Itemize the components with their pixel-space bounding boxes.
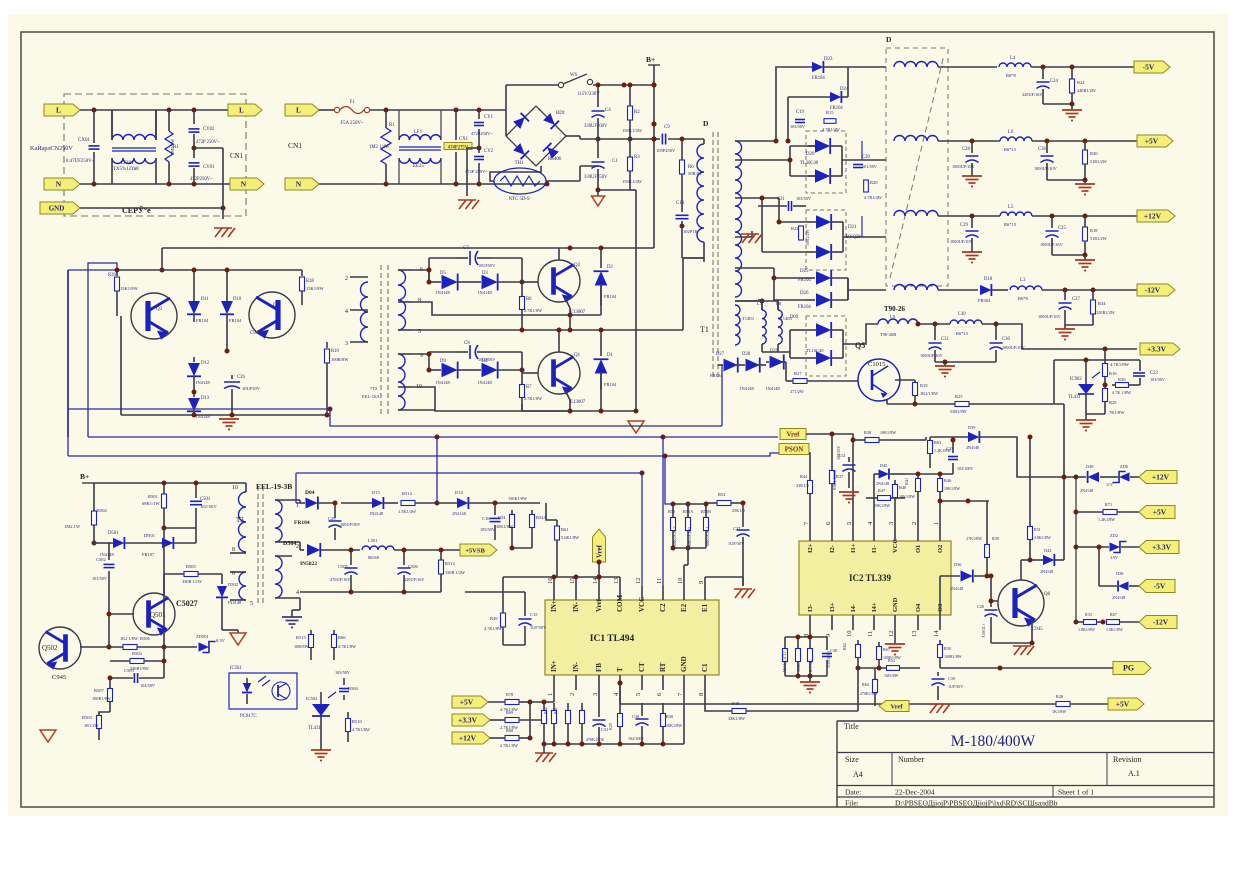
- svg-text:LF101: LF101: [121, 161, 134, 166]
- -12V rail wire: [848, 289, 886, 291]
- capacitor C29 sb: [334, 503, 336, 518]
- svg-text:LF1: LF1: [414, 130, 423, 135]
- svg-text:R44: R44: [800, 474, 808, 479]
- svg-text:1UF/50V: 1UF/50V: [530, 625, 547, 630]
- IC1 pin 6 RT: [662, 675, 664, 690]
- svg-text:105P250V: 105P250V: [656, 148, 676, 153]
- IC1 pin 5 CT: [641, 675, 643, 690]
- svg-text:ZD501: ZD501: [196, 634, 209, 639]
- svg-text:1000UF/10V: 1000UF/10V: [950, 239, 974, 244]
- svg-text:D24: D24: [840, 87, 849, 92]
- wire Q2 collector stub: [558, 248, 560, 260]
- thermistor TH1: [490, 166, 541, 181]
- svg-text:1000UF/16V: 1000UF/16V: [1038, 314, 1062, 319]
- svg-text:330UF250V: 330UF250V: [584, 175, 608, 180]
- svg-text:C29: C29: [328, 516, 336, 521]
- ground C14: [839, 491, 859, 493]
- svg-text:R67: R67: [1110, 612, 1117, 617]
- svg-text:R55: R55: [668, 509, 675, 514]
- svg-text:L9: L9: [890, 314, 896, 319]
- svg-text:103/50V: 103/50V: [790, 124, 806, 129]
- svg-text:I1-: I1-: [871, 545, 878, 553]
- svg-text:O2: O2: [937, 545, 944, 553]
- svg-text:271/2W: 271/2W: [790, 389, 805, 394]
- resistor R66: [333, 630, 335, 634]
- svg-text:R55A: R55A: [683, 509, 694, 514]
- resistor R44: [809, 460, 811, 480]
- svg-text:CY2: CY2: [484, 149, 494, 154]
- svg-text:150K1/4W: 150K1/4W: [622, 179, 643, 184]
- shunt reg IC502 TL431: [312, 704, 330, 716]
- svg-text:C1: C1: [701, 663, 709, 672]
- svg-text:220UF/16V: 220UF/16V: [1022, 92, 1043, 97]
- resistor R41: [917, 474, 919, 478]
- svg-text:IC501: IC501: [230, 666, 242, 671]
- ground D502 tri: [221, 610, 223, 630]
- svg-text:CY1: CY1: [484, 115, 494, 120]
- wire I1- riser row: [905, 473, 953, 475]
- wire D39 to sense column: [1000, 437, 1076, 477]
- svg-text:R69: R69: [506, 710, 513, 715]
- wire Q6 emitter ground: [1031, 620, 1033, 643]
- svg-text:R54A: R54A: [536, 515, 548, 520]
- diode D28 IN4148: [746, 358, 760, 373]
- diode D13 IN4148: [193, 392, 195, 397]
- svg-text:R57MC: R57MC: [808, 659, 813, 672]
- svg-text:472P 250V~: 472P 250V~: [196, 140, 220, 145]
- svg-text:10K1/8W: 10K1/8W: [880, 430, 896, 435]
- wire Q6 base: [991, 576, 998, 601]
- bus vertical to R514 node: [436, 437, 438, 503]
- svg-text:D23: D23: [824, 57, 833, 62]
- svg-text:C1: C1: [612, 159, 618, 164]
- resistor R30 +5V load: [1084, 141, 1086, 150]
- inductor L4: [999, 63, 1031, 67]
- svg-text:Vref: Vref: [787, 431, 801, 439]
- flag Vref net: [780, 429, 806, 440]
- ground drive rail: [121, 414, 327, 416]
- svg-text:-12V: -12V: [1145, 286, 1161, 295]
- IC2 pin 13 O4: [917, 615, 919, 630]
- svg-text:FR104: FR104: [798, 278, 811, 283]
- svg-text:C30: C30: [1002, 337, 1010, 342]
- IC1 pin 1 IN+: [553, 675, 555, 690]
- wire T pin4 long row: [620, 690, 1056, 704]
- svg-text:101/50V: 101/50V: [92, 576, 108, 581]
- svg-text:102P1K: 102P1K: [683, 229, 699, 234]
- diode D40: [1088, 471, 1099, 483]
- svg-text:R55B: R55B: [701, 509, 711, 514]
- wire T2 pin6: [412, 269, 429, 271]
- svg-text:100R1/8W: 100R1/8W: [92, 696, 112, 701]
- svg-text:11: 11: [656, 578, 663, 584]
- capacitor C37: [742, 503, 744, 527]
- svg-text:IN4148: IN4148: [478, 290, 492, 295]
- svg-text:100UF/50V: 100UF/50V: [340, 522, 361, 527]
- svg-text:R39: R39: [992, 536, 999, 541]
- resistor R510: [347, 712, 349, 718]
- svg-text:8: 8: [232, 547, 235, 553]
- wire D36 to O3: [939, 576, 941, 615]
- flag -12V out: [1137, 284, 1175, 296]
- svg-text:C29: C29: [960, 223, 968, 228]
- svg-text:C33: C33: [946, 446, 953, 451]
- TL431 sense network: [1104, 349, 1106, 360]
- T1 riser D25 D26: [774, 268, 806, 278]
- capacitor C24: [1042, 67, 1044, 79]
- svg-text:4.7K1/8W: 4.7K1/8W: [1110, 362, 1130, 367]
- svg-text:DN01: DN01: [144, 533, 155, 538]
- svg-text:FR104: FR104: [812, 76, 825, 81]
- svg-text:R68: R68: [506, 728, 513, 733]
- svg-text:R37: R37: [836, 474, 844, 479]
- svg-text:D14: D14: [455, 490, 463, 495]
- capacitor C506: [403, 550, 405, 565]
- wire Q6 collector: [1020, 560, 1022, 580]
- svg-text:A30/1L+: A30/1L+: [981, 623, 986, 638]
- svg-text:D27: D27: [716, 352, 725, 357]
- flag +12V sense: [1139, 471, 1177, 484]
- dual diode D21 BYQ28 (+12V): [806, 210, 846, 270]
- svg-text:102/1KV: 102/1KV: [200, 504, 218, 509]
- svg-text:IC902: IC902: [1070, 377, 1082, 382]
- svg-text:M-180/400W: M-180/400W: [951, 733, 1036, 750]
- -5V rail wire: [848, 66, 886, 68]
- svg-text:1M2.1W: 1M2.1W: [64, 524, 81, 529]
- ground C39: [929, 703, 947, 705]
- svg-text:1000UF/16V: 1000UF/16V: [1040, 242, 1064, 247]
- svg-text:1: 1: [547, 693, 554, 696]
- bus vertical VCC IC1: [641, 473, 643, 586]
- svg-text:100R/8W: 100R/8W: [331, 357, 349, 362]
- svg-text:R1: R1: [389, 123, 395, 128]
- resistor R68: [505, 736, 519, 741]
- svg-text:12: 12: [635, 578, 642, 585]
- diode D18 FR304: [980, 284, 991, 296]
- svg-text:33K1/8: 33K1/8: [796, 483, 809, 488]
- svg-text:FR304: FR304: [978, 298, 991, 303]
- node CY midpoint to GND: [192, 146, 197, 151]
- IC2 pin 8 I3-: [809, 615, 811, 630]
- svg-text:470K1/8W: 470K1/8W: [586, 737, 604, 742]
- wire R7 bottom to bottom rail: [521, 404, 523, 411]
- diode D14 2N4148: [457, 497, 468, 509]
- svg-text:IN-: IN-: [572, 601, 580, 612]
- svg-text:R66: R66: [338, 635, 346, 640]
- svg-text:865S8: 865S8: [368, 555, 379, 560]
- svg-text:R38: R38: [306, 279, 314, 284]
- flag +5V pg: [1108, 698, 1144, 710]
- wire Q1 base: [521, 370, 523, 373]
- resistor R69: [505, 718, 519, 723]
- svg-text:1R1/2W: 1R1/2W: [84, 723, 100, 728]
- resistor R20: [864, 180, 869, 192]
- svg-text:R41: R41: [904, 478, 909, 485]
- diode D502 vert: [221, 580, 223, 584]
- resistor R6 snubber: [681, 139, 683, 160]
- diode D504 IN5822: [299, 542, 301, 550]
- svg-text:100R1/8W: 100R1/8W: [944, 654, 962, 659]
- svg-text:103/50V: 103/50V: [335, 670, 351, 675]
- wire fb top: [530, 701, 554, 703]
- svg-text:27K1/8W: 27K1/8W: [966, 536, 982, 541]
- svg-text:T90-26: T90-26: [884, 305, 906, 313]
- svg-text:COM: COM: [616, 595, 624, 613]
- svg-text:R63: R63: [934, 440, 941, 445]
- IC2 pin 11 I4+: [873, 615, 875, 630]
- connector flag N (box out): [230, 178, 264, 190]
- transformer T1 core: [712, 132, 714, 378]
- svg-text:R515: R515: [296, 635, 307, 640]
- wire IC1 left loop: [465, 591, 525, 593]
- T1 riser D09 box: [790, 329, 806, 331]
- svg-text:2.7K1/8W: 2.7K1/8W: [524, 396, 543, 401]
- svg-text:C28: C28: [962, 147, 970, 152]
- ground IC2 bottom left: [785, 675, 827, 677]
- svg-text:1.2K1/8W: 1.2K1/8W: [1098, 517, 1115, 522]
- svg-text:FR104: FR104: [604, 382, 617, 387]
- svg-text:472P 250V~: 472P 250V~: [465, 169, 488, 174]
- inductor L6: [1000, 137, 1032, 141]
- resistor R18: [1084, 216, 1086, 227]
- svg-text:1000UF/10V: 1000UF/10V: [952, 164, 976, 169]
- svg-text:L: L: [239, 106, 244, 115]
- svg-text:D502: D502: [228, 582, 238, 587]
- svg-text:4.7K1/8W: 4.7K1/8W: [352, 727, 371, 732]
- svg-text:IN4148: IN4148: [766, 386, 780, 391]
- svg-text:D28: D28: [742, 352, 751, 357]
- svg-text:51R1/2W: 51R1/2W: [1090, 159, 1108, 164]
- ground TL431: [1086, 413, 1105, 415]
- resistor R29: [1104, 385, 1106, 389]
- svg-text:D2: D2: [607, 265, 613, 270]
- svg-text:R6*8: R6*8: [1006, 73, 1017, 78]
- svg-text:C14: C14: [838, 453, 846, 458]
- svg-text:+3.3V: +3.3V: [458, 716, 478, 725]
- ground -5V filter: [1043, 103, 1072, 105]
- svg-text:F5A 250V~: F5A 250V~: [340, 121, 364, 126]
- wire mid rail half bridge: [412, 329, 683, 331]
- capacitor C27: [1064, 290, 1066, 300]
- svg-text:TX5%12Ув8: TX5%12Ув8: [113, 167, 139, 172]
- svg-text:R15: R15: [826, 110, 834, 115]
- wire snubber T3: [94, 482, 246, 484]
- svg-text:+12V: +12V: [1152, 473, 1170, 482]
- svg-text:+5VSB: +5VSB: [465, 548, 485, 555]
- svg-text:10K1/8W: 10K1/8W: [666, 723, 682, 728]
- svg-text:C24: C24: [1050, 79, 1058, 84]
- svg-text:IN4148: IN4148: [228, 600, 241, 605]
- svg-text:R3: R3: [634, 155, 640, 160]
- svg-text:L5: L5: [1008, 205, 1014, 210]
- diode D23 FR104 -5V: [812, 61, 823, 73]
- svg-text:R61: R61: [561, 527, 569, 532]
- svg-text:240R1/2W: 240R1/2W: [1077, 88, 1097, 93]
- svg-text:R29: R29: [1109, 400, 1117, 405]
- svg-text:R6*15: R6*15: [1004, 147, 1017, 152]
- flag -5V out: [1134, 61, 1170, 73]
- feedback divider resistors: [543, 703, 545, 710]
- transformer T2 sec lower: [398, 354, 405, 410]
- wire 3.3 rail: [918, 323, 950, 325]
- svg-text:1UF/50V: 1UF/50V: [728, 541, 745, 546]
- svg-text:L8: L8: [776, 301, 782, 306]
- capacitor CY2: [478, 148, 480, 153]
- svg-text:IN4148: IN4148: [740, 386, 754, 391]
- IC2 pin 3 VCC: [894, 527, 896, 541]
- svg-text:102/100V: 102/100V: [628, 736, 644, 741]
- capacitor C15: [524, 592, 526, 616]
- svg-text:6.3V: 6.3V: [216, 638, 226, 643]
- svg-text:L30: L30: [958, 312, 966, 317]
- svg-text:2: 2: [296, 544, 299, 550]
- resistor R67c: [1107, 620, 1120, 625]
- capacitor C502: [108, 543, 110, 560]
- svg-text:L: L: [296, 106, 301, 115]
- svg-text:2N4148: 2N4148: [1080, 488, 1093, 493]
- svg-text:C36: C36: [1038, 147, 1046, 152]
- capacitor CX01: [93, 110, 95, 143]
- svg-text:1K1/8W: 1K1/8W: [1052, 709, 1066, 714]
- svg-text:R52: R52: [718, 492, 726, 497]
- svg-text:D11: D11: [201, 297, 210, 302]
- svg-text:CX01: CX01: [78, 138, 90, 143]
- zener ZD0: [1112, 472, 1129, 483]
- resistor R67b: [878, 642, 880, 646]
- bus wire feedback A: [68, 408, 330, 410]
- IC1 pin 9 E1: [704, 586, 706, 600]
- svg-text:KaЍaрлCN250V: KaЍaрлCN250V: [30, 144, 73, 152]
- Q5 base wire: [785, 362, 787, 381]
- svg-text:R6: R6: [526, 297, 532, 302]
- wire L to filter: [370, 109, 506, 111]
- svg-text:NTC 5D-9: NTC 5D-9: [508, 197, 530, 202]
- svg-text:8: 8: [418, 298, 421, 304]
- resistor R54: [511, 510, 513, 514]
- svg-text:330R 1/1W: 330R 1/1W: [182, 579, 203, 584]
- svg-text:L3: L3: [1020, 278, 1026, 283]
- resistor R502: [93, 483, 95, 511]
- svg-text:C8: C8: [464, 341, 470, 346]
- svg-text:D18: D18: [984, 277, 993, 282]
- svg-text:0.47UF250V~: 0.47UF250V~: [66, 159, 95, 164]
- svg-text:10: 10: [232, 485, 238, 491]
- resistor R54 net: [887, 666, 900, 671]
- resistor R50: [939, 640, 941, 644]
- svg-text:RT: RT: [659, 662, 667, 672]
- svg-text:2N4148: 2N4148: [452, 511, 466, 516]
- svg-text:D504: D504: [283, 541, 296, 547]
- dual diode D20 TL30C40 (+5V): [806, 131, 846, 193]
- svg-text:CT: CT: [638, 662, 646, 672]
- resistor R30b: [1116, 383, 1129, 388]
- svg-text:1M2 1/4W: 1M2 1/4W: [369, 145, 390, 150]
- svg-text:FB: FB: [595, 663, 603, 672]
- svg-text:C10: C10: [676, 201, 685, 206]
- svg-text:D38: D38: [1116, 571, 1123, 576]
- IC1 pin 2 IN-: [575, 675, 577, 690]
- svg-text:2.7K1/8W: 2.7K1/8W: [500, 743, 519, 748]
- wire PSON to R44: [809, 453, 810, 460]
- svg-text:C19: C19: [796, 110, 804, 115]
- inductor L5: [1000, 212, 1032, 216]
- svg-text:C945: C945: [158, 331, 169, 336]
- svg-text:RS406: RS406: [548, 157, 562, 162]
- wire GND input: [80, 207, 223, 209]
- common mode choke LF1: [399, 135, 441, 140]
- svg-text:FR104: FR104: [229, 318, 242, 323]
- svg-text:R22: R22: [791, 226, 799, 231]
- resistor R503: [99, 712, 110, 715]
- ground TL431 sb: [311, 749, 331, 751]
- svg-text:IN4148: IN4148: [436, 290, 450, 295]
- svg-text:2: 2: [569, 693, 576, 696]
- svg-text:2N4148: 2N4148: [966, 445, 979, 450]
- svg-text:33K1/8W: 33K1/8W: [728, 716, 746, 721]
- flag +5VSB: [460, 544, 497, 556]
- svg-text:D40: D40: [1086, 464, 1093, 469]
- svg-text:68K1/C8L7: 68K1/C8L7: [672, 526, 677, 546]
- svg-text:GND: GND: [892, 597, 899, 612]
- wire pin9 E1: [705, 576, 743, 578]
- svg-text:1M9/1W: 1M9/1W: [170, 138, 175, 155]
- svg-text:C945: C945: [250, 331, 261, 336]
- svg-text:30K1/8W: 30K1/8W: [496, 524, 514, 529]
- svg-text:L6: L6: [1008, 130, 1014, 135]
- bus wire row C Vref: [88, 436, 778, 438]
- svg-text:101/50V: 101/50V: [862, 164, 878, 169]
- svg-text:270K1/8W: 270K1/8W: [860, 691, 878, 696]
- wire C8 loop: [428, 352, 430, 370]
- svg-text:TH1: TH1: [515, 161, 524, 166]
- diode D29 IN4148: [770, 355, 784, 370]
- capacitor C1: [597, 139, 599, 158]
- svg-text:4: 4: [296, 590, 299, 596]
- fuse F1: [319, 109, 334, 111]
- ground C29: [971, 248, 973, 252]
- svg-text:2.7K1/8W: 2.7K1/8W: [524, 308, 543, 313]
- capacitor C503: [133, 673, 135, 683]
- bus vertical C2 IC1: [662, 437, 664, 586]
- diode D25 FR104 (-12V): [816, 270, 831, 286]
- svg-text:R7: R7: [526, 385, 532, 390]
- wire E2 chain: [687, 548, 689, 565]
- svg-text:R28: R28: [1056, 694, 1063, 699]
- capacitor C20: [853, 164, 863, 166]
- diode D42: [1043, 554, 1054, 566]
- IC1 pin 14 Vref: [598, 586, 600, 600]
- svg-text:R50: R50: [944, 646, 951, 651]
- transistor Q2 E13007: [538, 260, 580, 303]
- IC2 pin 2 O1: [917, 527, 919, 541]
- svg-text:CX1: CX1: [459, 137, 469, 142]
- flag +12V out: [1137, 210, 1175, 222]
- resistors R55 R55A R55B: [672, 504, 674, 517]
- svg-text:D3: D3: [482, 271, 488, 276]
- resistor R19: [895, 379, 915, 381]
- resistor R30 fb: [662, 703, 664, 713]
- primary bottom return: [703, 258, 705, 262]
- wire bridge left: [505, 110, 507, 136]
- resistor R39: [116, 270, 118, 276]
- svg-text:C945: C945: [1032, 627, 1043, 632]
- transistor Q6 C945: [998, 580, 1044, 627]
- inductor L3: [1010, 286, 1042, 290]
- svg-text:R48: R48: [732, 701, 739, 706]
- svg-text:D21: D21: [848, 225, 857, 230]
- resistor R506: [123, 645, 137, 650]
- IC2 comparator pullups bottom left: [785, 636, 827, 638]
